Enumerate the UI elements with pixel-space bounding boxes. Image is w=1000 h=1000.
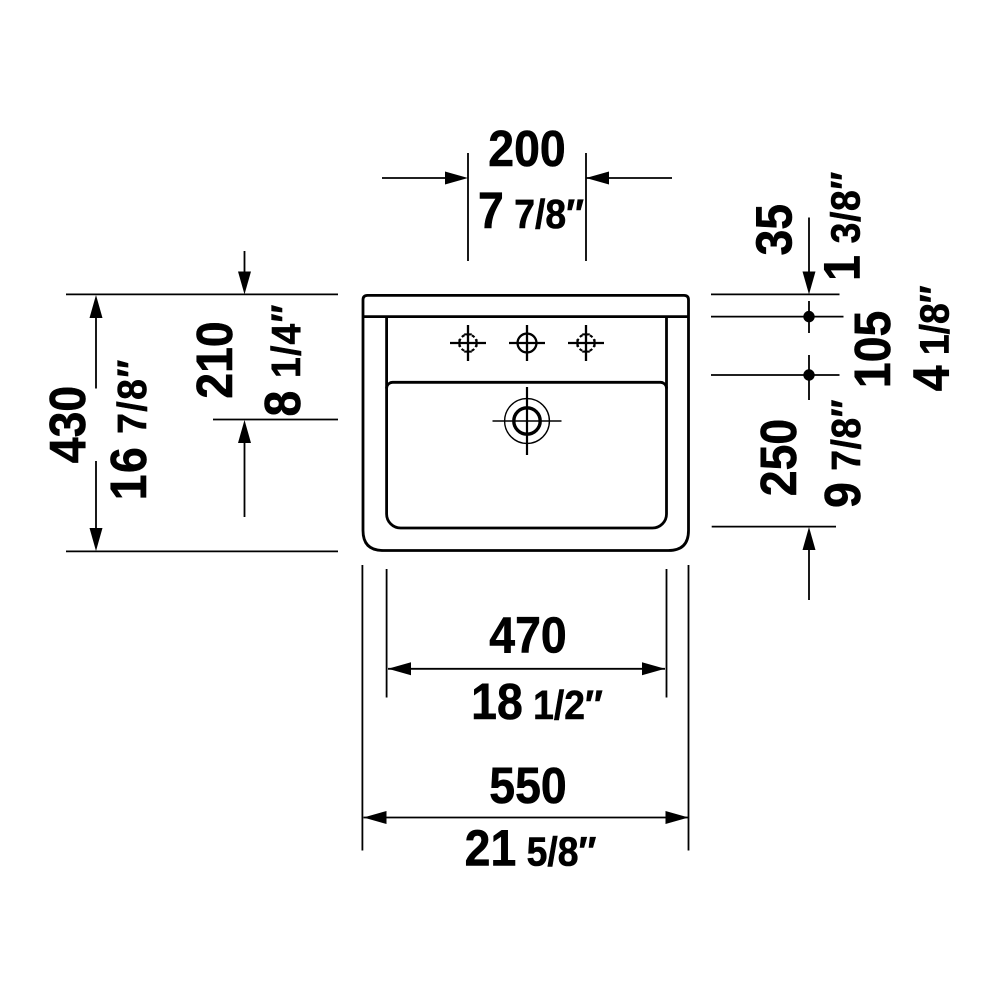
dimension 430 line and arrows (90, 295, 103, 551)
right reference line at rim with dot (711, 301, 844, 333)
dimension 1 3/8 label (815, 171, 871, 281)
dimension 550 line and arrows (364, 811, 689, 824)
basin front edge line (387, 382, 667, 388)
svg-text:8 1/4″: 8 1/4″ (255, 304, 311, 417)
svg-text:21 5/8″: 21 5/8″ (465, 821, 597, 877)
svg-text:35: 35 (747, 204, 803, 256)
dimension 200 label (488, 121, 565, 177)
left faucet hole (optional, dashed) (450, 325, 486, 361)
left top reference line (66, 293, 338, 295)
dimension 250 arrow (803, 527, 816, 600)
dimension 35 label (747, 204, 803, 256)
washbasin outer outline (363, 295, 689, 550)
dimension 210 label (187, 321, 243, 398)
right faucet hole (optional, dashed) (568, 325, 604, 361)
svg-text:1 3/8″: 1 3/8″ (815, 171, 871, 281)
dimension 470 extension lines (387, 569, 667, 698)
dimension 18 1/2 label (471, 674, 603, 730)
svg-text:7 7/8″: 7 7/8″ (478, 183, 584, 239)
svg-text:200: 200 (488, 121, 565, 177)
dimension 8 1/4 label (255, 304, 311, 417)
drain hole (493, 387, 562, 455)
washbasin inner wall and basin bottom (387, 317, 667, 528)
dimension 550 extension lines (362, 565, 688, 851)
svg-text:105: 105 (845, 311, 901, 388)
svg-text:430: 430 (40, 386, 96, 463)
dimension 21 5/8 label (465, 821, 597, 877)
svg-text:9 7/8″: 9 7/8″ (815, 399, 871, 508)
dimension 470 label (489, 608, 566, 664)
left bottom reference line (66, 550, 338, 552)
svg-text:4 1/8″: 4 1/8″ (904, 285, 960, 391)
svg-text:210: 210 (187, 321, 243, 398)
dimension 35 arrow (803, 218, 816, 295)
svg-text:550: 550 (489, 758, 566, 814)
svg-text:18 1/2″: 18 1/2″ (471, 674, 603, 730)
dimension 550 label (489, 758, 566, 814)
dimension 4 1/8 label (904, 285, 960, 391)
right reference line bottom (712, 526, 836, 528)
svg-text:250: 250 (751, 419, 807, 496)
svg-text:470: 470 (489, 608, 566, 664)
right reference line at basin edge with dot (711, 355, 840, 400)
dimension 105 label (845, 311, 901, 388)
washbasin rim back edge line (364, 315, 689, 318)
dimension 9 7/8 label (815, 399, 871, 508)
dimension 250 label (751, 419, 807, 496)
dimension 430 label (40, 386, 96, 463)
dimension 200: arrows (382, 172, 672, 185)
dimension 470 line and arrows (388, 662, 665, 675)
svg-text:16 7/8″: 16 7/8″ (101, 358, 157, 500)
dimension 7 7/8 label (478, 183, 584, 239)
dimension 16 7/8 label (101, 358, 157, 500)
dimension 200: extension lines (468, 153, 586, 261)
dimension 210 line and arrows (213, 251, 338, 517)
right reference line top (711, 293, 840, 295)
center faucet hole (509, 325, 545, 361)
